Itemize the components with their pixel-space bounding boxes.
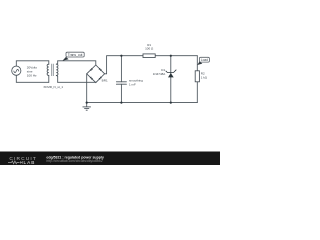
resistor R1 box: [143, 54, 155, 58]
svg-text:1 kΩ: 1 kΩ: [201, 75, 208, 79]
label R1 100 Ohm: [145, 43, 154, 51]
junction dot top cap node: [120, 55, 122, 57]
svg-text:http://circuitlab.com/circuits: http://circuitlab.com/circuits/d6ykd5tw2: [46, 159, 102, 163]
wire: bridge right corner up to top rail: [105, 56, 143, 74]
svg-text:LAB: LAB: [24, 160, 36, 165]
junction dot ground node: [86, 102, 88, 104]
voltage source V1 circle: [12, 66, 21, 75]
voltage source V1 sine: [14, 69, 19, 72]
resistor R2 box: [195, 71, 199, 82]
capacitor C1 plates: [116, 82, 126, 84]
junction dot bottom zener node: [170, 102, 172, 104]
transformer T1 primary lead top: [48, 61, 50, 64]
label R2 1 kOhm: [201, 72, 208, 80]
svg-text:100 Ω: 100 Ω: [145, 47, 154, 51]
bridge rectifier BR1 diamond: [87, 65, 105, 83]
transformer core: [52, 64, 54, 76]
transformer T1 primary lead bottom: [48, 75, 50, 82]
label V1 value: [27, 66, 38, 78]
bridge BR1 internal diodes: [90, 68, 102, 80]
wire: secondary bottom to bridge bottom corner: [58, 81, 96, 83]
svg-text:XFMR_N_st_1: XFMR_N_st_1: [43, 85, 63, 89]
wire: top rail right of R1: [155, 55, 197, 57]
footer logo wire + LAB: [8, 161, 20, 164]
transformer T1 secondary lead top: [56, 61, 57, 64]
transformer T1 secondary lead bottom: [56, 75, 57, 82]
wire: secondary top to bridge: [58, 61, 96, 65]
flag Load: [197, 57, 209, 65]
junction dot top zener node: [170, 55, 172, 57]
flag Trans_out: [62, 52, 84, 61]
wire: source loop top: [16, 61, 49, 66]
ground symbol: [83, 103, 91, 111]
transformer T1 secondary winding: [56, 64, 58, 75]
zener diode D1 branch wire: [170, 56, 172, 103]
wire: R2 bottom to ground rail: [196, 82, 198, 103]
svg-text:Load: Load: [201, 58, 208, 62]
zener diode D1 symbol: [166, 70, 177, 78]
transformer T1 primary winding: [47, 64, 49, 75]
wire: ground rail: [87, 102, 198, 104]
capacitor C1 branch bottom wire: [120, 84, 122, 102]
capacitor C1 branch top wire: [120, 56, 122, 82]
wire: source loop bottom: [16, 75, 49, 82]
label D1 1N4748A: [153, 68, 166, 76]
wire: bridge left corner down to ground rail: [86, 74, 88, 103]
svg-text:Trans_out: Trans_out: [68, 53, 83, 57]
svg-text:1N4748A: 1N4748A: [153, 72, 166, 76]
svg-text:100 Hz: 100 Hz: [27, 74, 37, 78]
label smoothing 1 mF: [129, 79, 143, 87]
junction dot bottom cap node: [120, 102, 122, 104]
footer bar: [0, 152, 220, 166]
wire: load corner down to R2: [196, 56, 198, 71]
svg-text:1 mF: 1 mF: [129, 82, 136, 86]
svg-text:BR1: BR1: [102, 78, 108, 82]
